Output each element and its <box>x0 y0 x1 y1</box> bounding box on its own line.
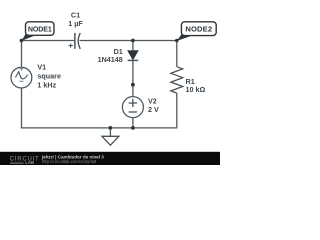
junction dot at bottom wire / ground <box>109 126 113 130</box>
node NODE2 flag <box>177 22 216 41</box>
svg-text:square: square <box>37 72 61 81</box>
node A corner dot (NODE1 attach point) <box>20 39 24 43</box>
label R1 value <box>186 77 206 94</box>
wire right branch lower (R1 bottom to bottom wire) <box>176 93 178 128</box>
wire bottom segment (bottom-left corner to bottom-right corner) <box>21 127 178 129</box>
svg-text:http://circuitlab.com/c/dryhk8: http://circuitlab.com/c/dryhk8 <box>42 159 97 164</box>
label V2 value <box>148 97 159 115</box>
junction dot at top wire / D1 branch <box>131 39 135 43</box>
svg-text:2 V: 2 V <box>148 105 159 114</box>
svg-text:LAB: LAB <box>25 160 34 165</box>
label V1 value <box>37 63 61 90</box>
wire right branch upper (node2 corner to R1 top) <box>176 40 178 67</box>
svg-text:NODE2: NODE2 <box>185 25 212 34</box>
junction dot at bottom wire / V2 branch <box>131 126 135 130</box>
wire middle branch mid (D1 cathode to V2 plus terminal) <box>132 60 134 96</box>
label C1 value <box>68 11 83 28</box>
footer CircuitLab logo <box>10 156 40 165</box>
ground <box>102 128 119 145</box>
svg-text:10 kΩ: 10 kΩ <box>186 85 206 94</box>
wire middle branch lower (V2 minus terminal to bottom wire) <box>132 118 134 129</box>
wire top-left segment (node1 corner to C1 left plate) <box>21 40 74 42</box>
wire left branch upper (node1 corner down to V1 top) <box>21 40 23 68</box>
svg-text:1N4148: 1N4148 <box>98 55 123 64</box>
capacitor C1 <box>69 33 81 49</box>
voltage source V1 (square wave generator) <box>11 67 32 88</box>
wire top-right segment (C1 right plate to node2 corner) <box>80 40 178 42</box>
resistor R1 <box>171 67 183 93</box>
label D1 value <box>98 47 123 64</box>
svg-text:1 µF: 1 µF <box>68 19 83 28</box>
svg-text:NODE1: NODE1 <box>28 26 52 34</box>
junction dot between D1 and V2 <box>131 83 135 87</box>
diode D1 <box>128 51 139 61</box>
node NODE1 flag <box>21 22 54 41</box>
svg-text:1 kHz: 1 kHz <box>37 81 56 90</box>
node B corner dot (NODE2 attach point) <box>175 39 179 43</box>
wire middle branch upper (top wire junction to D1 anode) <box>132 41 134 52</box>
wire left branch lower (V1 bottom to bottom-left corner) <box>21 88 23 129</box>
svg-text:V1: V1 <box>37 63 46 72</box>
footer bar <box>0 152 220 165</box>
voltage source V2 (DC 2V) <box>122 97 143 118</box>
